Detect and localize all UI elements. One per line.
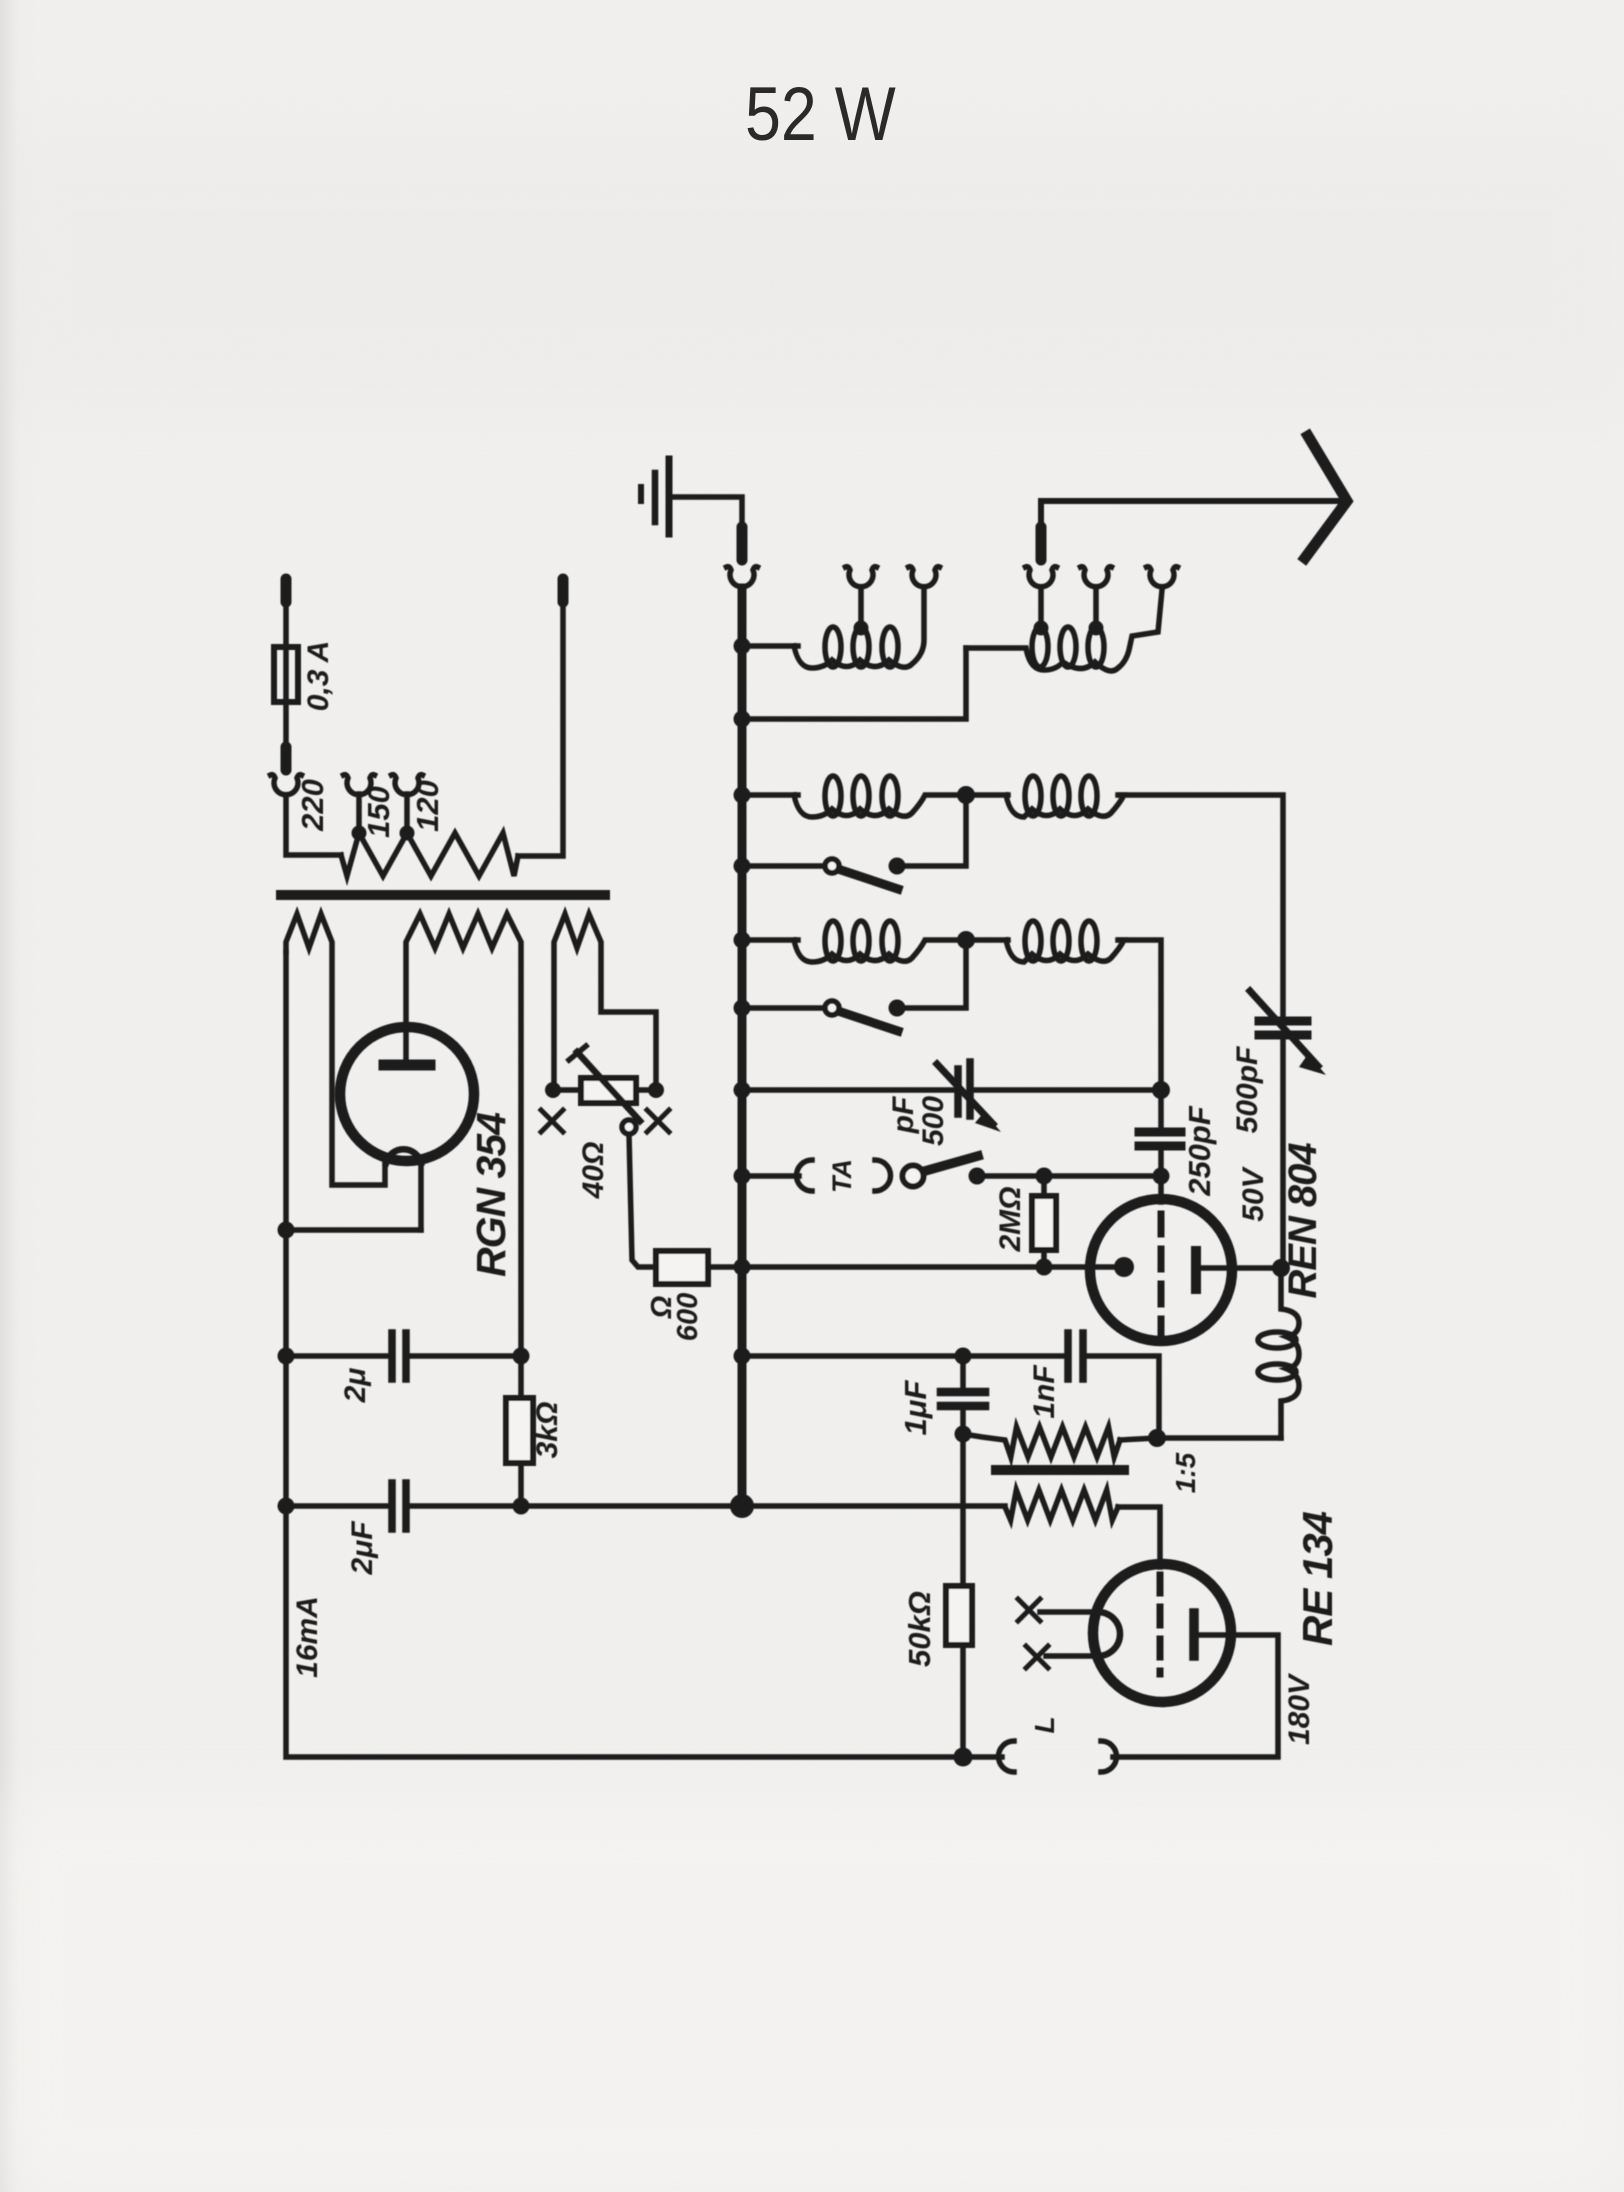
wire bus to REN grid — [742, 1264, 1124, 1270]
svg-text:50V: 50V — [1237, 1165, 1270, 1221]
transformer T1 winding c — [554, 914, 656, 1090]
capacitor C250 plates — [1139, 1128, 1181, 1137]
rheostat R40 40ohm — [581, 1078, 636, 1103]
wire left to C2a — [286, 1353, 388, 1359]
fuse F1 0.3A — [274, 647, 298, 702]
node R3k bottom — [513, 1498, 530, 1515]
resistor R3k — [506, 1398, 533, 1463]
arrow C500a — [1250, 991, 1318, 1066]
coil L5 tuning left — [794, 940, 958, 962]
tube V2 anode bar — [1189, 1613, 1199, 1656]
svg-text:RGN 354: RGN 354 — [468, 1112, 514, 1277]
wire bus to switchB — [742, 1005, 826, 1011]
tube V2 filament wires — [1040, 1609, 1098, 1615]
wire 220 to primary — [286, 796, 341, 855]
wire bottom rail — [286, 1506, 1002, 1757]
speaker jack left — [998, 1741, 1014, 1772]
wire C250 to grid node — [1158, 1150, 1164, 1176]
wire bus to coil L5 — [742, 937, 798, 943]
coil L3 tuning left — [794, 795, 958, 817]
node bus-trimmer — [734, 1082, 751, 1099]
wire ground to bus plug — [669, 497, 742, 527]
filament terminal x2 — [1026, 1646, 1048, 1668]
wire C500b to node — [974, 1087, 1161, 1093]
node bus-row1-return — [734, 711, 751, 728]
node left-2u — [278, 1348, 295, 1365]
socket at L1 end — [909, 567, 940, 587]
svg-text:500: 500 — [917, 1096, 950, 1146]
plug pin fuse bottom — [281, 747, 292, 770]
wire left to C2b — [286, 1503, 386, 1509]
wire bus to coil L1 — [742, 643, 798, 649]
transformer T1 winding a — [286, 914, 385, 1185]
wire node to C250 — [1158, 1090, 1164, 1128]
node C250 bottom — [1153, 1168, 1170, 1185]
tube V1 filament — [386, 1149, 421, 1163]
wire C2a to R3k — [409, 1353, 521, 1359]
node S3 contact — [969, 1168, 986, 1185]
node rowA mid — [957, 786, 975, 804]
plug pin mains right — [558, 579, 569, 602]
svg-text:150: 150 — [361, 786, 396, 838]
wire rowA to cap C500a — [1118, 795, 1283, 1014]
node bus-row1 — [734, 638, 751, 655]
antenna drop wire — [1038, 501, 1044, 527]
node bus-1nF — [734, 1348, 751, 1365]
socket L2 c — [1147, 567, 1178, 587]
wire to R40 — [553, 1087, 581, 1093]
stem L2 a — [1038, 588, 1044, 628]
wire S3 to grid cap node — [977, 1173, 1161, 1179]
wire R40 right — [636, 1087, 656, 1093]
title 52 W — [745, 71, 896, 158]
node bus-rowB — [734, 932, 751, 949]
capacitor C500b plates — [954, 1069, 962, 1114]
resistor R50k — [960, 1434, 966, 1586]
switch S1 pivot — [825, 859, 839, 873]
socket L2 a — [1026, 567, 1057, 587]
wire C1n to primary node — [1086, 1356, 1159, 1438]
TA jack left — [797, 1160, 813, 1191]
antenna plug — [1036, 527, 1047, 560]
wire switchB step — [905, 940, 966, 1008]
filament terminal x1 — [1018, 1599, 1040, 1621]
capacitor C2b 2uF plates — [388, 1483, 396, 1529]
transformer T1 primary — [341, 833, 518, 876]
node R2M bottom — [1036, 1259, 1053, 1276]
wire to fuse — [283, 604, 289, 747]
coil L6 tuning right — [966, 937, 1008, 943]
resistor R2M 2M — [1041, 1176, 1047, 1196]
transformer T2 secondary — [1005, 1490, 1118, 1520]
wire R600 to bus — [708, 1264, 742, 1270]
wire V1 filament right — [418, 1163, 424, 1230]
transformer T2 primary — [963, 1427, 1120, 1457]
node bus-TA — [734, 1168, 751, 1185]
node 40ohm right — [648, 1082, 664, 1098]
wire bus to coil L3 — [742, 792, 798, 798]
tube U1 anode wire — [1200, 1265, 1281, 1271]
svg-text:250pF: 250pF — [1182, 1105, 1217, 1197]
svg-text:2μF: 2μF — [346, 1521, 379, 1576]
wire left column — [283, 952, 289, 1506]
wire switchA step — [905, 795, 966, 866]
tube V1 RGN354 envelope — [340, 1027, 474, 1161]
stem 120 — [404, 794, 410, 833]
svg-text:3kΩ: 3kΩ — [531, 1402, 564, 1459]
tube V1 anode bar — [384, 1060, 430, 1071]
node bus-rowA — [734, 787, 751, 804]
socket above L1 tap — [846, 567, 877, 587]
node tap120 — [400, 826, 415, 841]
node tap150 — [352, 826, 367, 841]
wire primary to node — [1120, 1438, 1157, 1440]
wire primary right lead — [518, 604, 563, 856]
node anode U1 — [1272, 1259, 1290, 1277]
node R3k top — [513, 1348, 530, 1365]
capacitor C2a 2u plates — [388, 1333, 396, 1379]
svg-text:220: 220 — [295, 779, 330, 832]
node C1u bottom — [955, 1426, 972, 1443]
filament terminal x4 — [647, 1110, 669, 1132]
tube U1 REN804 envelope — [1090, 1199, 1232, 1341]
svg-text:1:5: 1:5 — [1170, 1452, 1201, 1493]
node switchB contact — [889, 1000, 906, 1017]
node L1 tap — [854, 621, 869, 636]
wire S40 to R600 — [629, 1134, 656, 1267]
socket at bus top — [727, 567, 758, 587]
wire bus to C1n — [742, 1353, 1062, 1359]
svg-text:pF: pF — [887, 1096, 920, 1134]
node bus-grid — [734, 1259, 751, 1276]
transformer T1 winding b HV — [406, 914, 521, 1398]
main bus — [738, 588, 747, 1506]
svg-text:L: L — [1029, 1716, 1060, 1733]
tube V2 grid dashes — [1157, 1575, 1164, 1674]
svg-text:RE 134: RE 134 — [1294, 1511, 1341, 1646]
wire RGN filament return — [286, 1227, 421, 1233]
return wire row1 — [742, 648, 966, 719]
node 40ohm left — [545, 1082, 561, 1098]
coil L2 antenna secondary — [966, 590, 1162, 671]
tube V2 filament — [1098, 1612, 1120, 1656]
node R2M top — [1036, 1168, 1053, 1185]
node left-RGN — [278, 1222, 295, 1239]
wire bus to switchA — [742, 863, 826, 869]
svg-text:2MΩ: 2MΩ — [994, 1186, 1027, 1252]
coil L1 antenna primary — [794, 590, 924, 668]
socket L2 b — [1081, 567, 1112, 587]
node left-2uF — [278, 1498, 295, 1515]
ground symbol — [638, 487, 644, 501]
plug pin mains left — [281, 579, 292, 602]
svg-text:1μF: 1μF — [898, 1380, 933, 1436]
transformer T2 core — [996, 1465, 1124, 1475]
wire R3k down — [518, 1463, 524, 1506]
tube V2 anode wire — [1113, 1635, 1278, 1757]
svg-text:50kΩ: 50kΩ — [902, 1591, 937, 1667]
stem L1 tap — [858, 588, 864, 628]
antenna lead-in wire — [1041, 498, 1338, 504]
socket 220 — [271, 775, 302, 795]
svg-text:0,3 A: 0,3 A — [302, 641, 335, 712]
tube U1 anode bar — [1191, 1251, 1201, 1289]
choke Dr1 — [1281, 1268, 1299, 1438]
switch S2 blade — [841, 1012, 898, 1031]
speaker jack right — [1101, 1741, 1117, 1772]
switch S1 blade — [841, 870, 898, 889]
wire secondary to RE grid — [1118, 1507, 1160, 1567]
node C1u top — [955, 1348, 972, 1365]
node primary right — [1148, 1429, 1166, 1447]
wire C250 node into tube — [1158, 1176, 1164, 1202]
stem L2 b — [1093, 588, 1099, 628]
tube V2 RE134 envelope — [1093, 1564, 1231, 1702]
node trimmer-C250 — [1152, 1081, 1170, 1099]
TA jack right — [875, 1160, 890, 1191]
resistor R600 600ohm — [656, 1251, 708, 1284]
svg-text:REN 804: REN 804 — [1281, 1143, 1325, 1299]
filament terminal x3 — [541, 1110, 563, 1132]
svg-text:500pF: 500pF — [1231, 1046, 1264, 1133]
capacitor C500a plates — [1259, 1017, 1307, 1026]
node R50k bottom — [954, 1748, 973, 1767]
wire bus to TA jack — [742, 1173, 799, 1179]
node bus-switchB — [734, 1000, 751, 1017]
capacitor C1n 1nF plates — [1064, 1333, 1072, 1379]
arrow R40 — [577, 1052, 640, 1121]
antenna arrow — [1305, 436, 1347, 558]
svg-text:16mA: 16mA — [291, 1596, 324, 1678]
tube U1 grid dashes — [1158, 1214, 1165, 1338]
wire C2b to bus bottom — [409, 1503, 1005, 1509]
tube U1 grid wire dot — [1114, 1257, 1134, 1277]
svg-text:180V: 180V — [1283, 1672, 1316, 1745]
switch S3 blade — [925, 1156, 978, 1171]
socket 120 — [392, 775, 423, 795]
svg-text:40Ω: 40Ω — [577, 1142, 610, 1200]
svg-text:Ω: Ω — [646, 1295, 678, 1319]
switch S3 pivot — [903, 1166, 924, 1187]
wire C500a to anode node — [1280, 1040, 1286, 1268]
wire choke bottom — [1157, 1435, 1281, 1441]
svg-text:2μ: 2μ — [339, 1368, 372, 1404]
svg-text:TA: TA — [827, 1159, 857, 1193]
transformer T1 core — [281, 890, 605, 900]
arrow C500b — [937, 1064, 993, 1124]
banana plug at bus top — [737, 527, 748, 560]
svg-text:1nF: 1nF — [1028, 1365, 1061, 1419]
capacitor C1u 1uF — [960, 1356, 966, 1387]
node bus-switchA — [734, 858, 751, 875]
wire rowB down to C250 node — [1118, 940, 1161, 1090]
stem 150 — [356, 794, 362, 833]
node L2 b — [1089, 621, 1104, 636]
node L2 a — [1034, 621, 1049, 636]
node switchA contact — [889, 858, 906, 875]
socket 150 — [344, 775, 375, 795]
wire bus to C500b — [742, 1087, 953, 1093]
switch S40 pivot — [622, 1120, 636, 1134]
node rowB mid — [957, 931, 975, 949]
svg-text:120: 120 — [410, 780, 445, 832]
coil L4 tuning right — [966, 792, 1008, 798]
node bus bottom — [730, 1494, 754, 1518]
switch S2 pivot — [825, 1001, 839, 1015]
